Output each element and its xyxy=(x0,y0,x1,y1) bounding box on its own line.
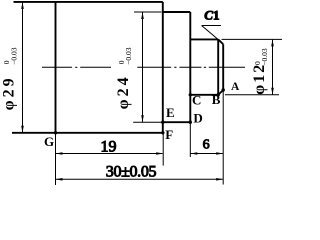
node F xyxy=(161,131,164,134)
extension line below F xyxy=(162,134,164,166)
svg-text:F: F xyxy=(165,127,173,142)
node dots xyxy=(54,88,225,134)
shaft outline phi24 section xyxy=(163,12,191,122)
extension line below D xyxy=(189,124,191,158)
svg-text:0: 0 xyxy=(253,61,262,65)
wire: phi12 right end face xyxy=(222,44,224,90)
svg-text:D: D xyxy=(193,111,202,126)
svg-text:φ12: φ12 xyxy=(251,63,268,95)
wire: phi29 right end face xyxy=(162,2,164,133)
wire: phi29 bottom edge with left extension xyxy=(12,132,163,134)
svg-text:0: 0 xyxy=(2,60,11,64)
svg-text:30±0.05: 30±0.05 xyxy=(106,163,157,180)
node D xyxy=(189,121,192,124)
wire: phi29 left face xyxy=(55,2,57,133)
svg-text:φ29: φ29 xyxy=(0,75,17,110)
node B xyxy=(217,93,220,96)
svg-text:G: G xyxy=(44,134,54,149)
dimension 6 xyxy=(191,153,223,155)
chamfer leader line xyxy=(202,26,221,42)
svg-text:C: C xyxy=(192,93,201,108)
node G xyxy=(54,131,57,134)
wire: phi24 right end face xyxy=(189,12,191,122)
wire: bottom chamfer edge xyxy=(218,90,223,95)
svg-text:19: 19 xyxy=(101,138,117,155)
shaft outline phi12 section with chamfer xyxy=(190,39,223,94)
wire: phi29 top edge with left extension xyxy=(14,1,163,3)
wire: phi12 bottom edge xyxy=(190,94,218,96)
svg-text:φ24: φ24 xyxy=(115,74,132,109)
label phi29 with tolerance xyxy=(0,47,18,110)
svg-text:E: E xyxy=(166,105,175,120)
label phi12 with tolerance xyxy=(251,48,269,95)
centerline xyxy=(42,66,245,68)
node E xyxy=(161,121,164,124)
dimension 19 xyxy=(56,153,163,155)
wire: top chamfer edge xyxy=(218,39,223,44)
wire: phi24 top edge xyxy=(163,11,191,13)
svg-text:B: B xyxy=(212,92,221,107)
shaft outline phi29 section xyxy=(12,2,163,133)
svg-text:C1: C1 xyxy=(204,8,219,23)
wire: phi12 top edge xyxy=(190,38,218,40)
wire: phi24 bottom edge xyxy=(163,121,191,123)
dimension phi29: extension + line + arrows xyxy=(22,2,24,132)
svg-text:6: 6 xyxy=(203,138,210,153)
dimension phi12: extensions + line + arrows xyxy=(222,39,283,94)
extension line below G xyxy=(56,90,224,185)
extension line below A xyxy=(222,90,224,185)
label phi24 with tolerance xyxy=(115,47,133,109)
point labels xyxy=(44,81,240,149)
node A xyxy=(222,88,225,91)
wire: chamfer start circle edge xyxy=(217,39,219,94)
svg-text:0: 0 xyxy=(117,60,126,64)
dimension 30 xyxy=(56,178,223,180)
node C xyxy=(189,93,192,96)
dimension phi24: extensions + line + arrows xyxy=(133,12,161,122)
svg-text:A: A xyxy=(231,81,240,93)
